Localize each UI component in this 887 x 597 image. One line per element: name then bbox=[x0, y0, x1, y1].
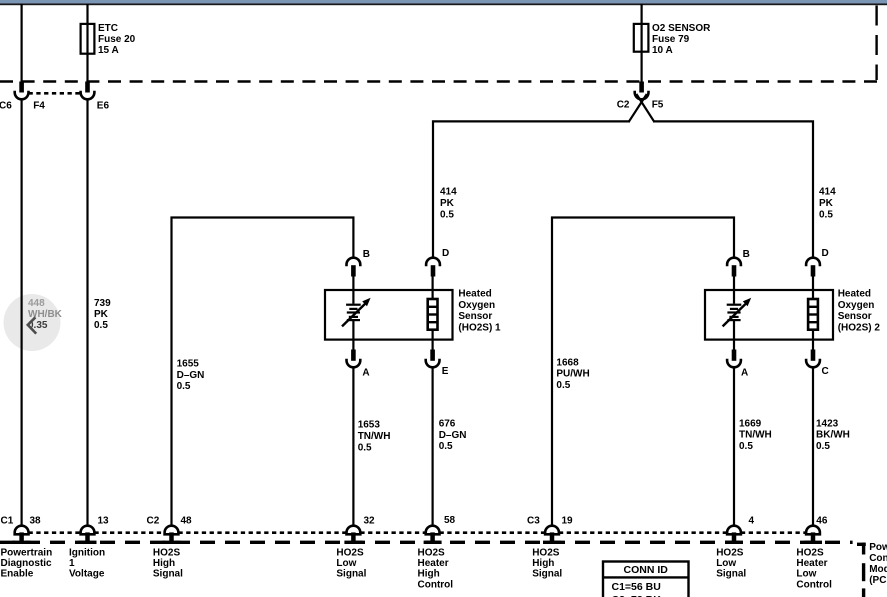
value label 739 PK 0.5 bbox=[94, 298, 111, 331]
svg-text:PK: PK bbox=[94, 309, 109, 320]
connector HO2S1 pin A bbox=[347, 350, 361, 368]
svg-text:TN/WH: TN/WH bbox=[358, 431, 391, 442]
label: HO2S High Signal bbox=[153, 548, 183, 580]
svg-text:E6: E6 bbox=[97, 100, 110, 111]
svg-text:C6: C6 bbox=[0, 100, 12, 111]
svg-text:Control: Control bbox=[418, 579, 454, 590]
label Heated Oxygen Sensor (HO2S) 1 bbox=[458, 289, 501, 334]
connector HO2S1 pin D bbox=[426, 258, 440, 277]
wire: 414 PK right branch to HO2S 2 pin D bbox=[653, 121, 813, 258]
fuse block row dotted link line (C6/F4 to E6) bbox=[29, 92, 81, 95]
svg-text:414: 414 bbox=[819, 187, 836, 198]
svg-text:Sensor: Sensor bbox=[838, 311, 872, 322]
cursor mark bbox=[28, 317, 36, 333]
svg-text:Oxygen: Oxygen bbox=[838, 300, 875, 311]
svg-text:0.5: 0.5 bbox=[819, 209, 833, 220]
svg-text:HO2S: HO2S bbox=[336, 548, 364, 559]
svg-text:0.5: 0.5 bbox=[358, 442, 372, 453]
svg-text:(HO2S) 2: (HO2S) 2 bbox=[838, 322, 881, 333]
svg-text:F5: F5 bbox=[652, 100, 664, 111]
svg-text:739: 739 bbox=[94, 298, 111, 309]
connector PCM pin 46 bbox=[804, 526, 822, 544]
splice crossover to two branches bbox=[629, 94, 655, 122]
svg-text:PK: PK bbox=[440, 198, 455, 209]
svg-text:HO2S: HO2S bbox=[796, 548, 824, 559]
value label 448 WH/BK 0.35 bbox=[28, 298, 63, 331]
sensor HO2S 2 internals: zirconia element bbox=[723, 277, 752, 351]
component box: Heated Oxygen Sensor (HO2S) 2 bbox=[705, 290, 833, 340]
boundary: Powertrain Control Module dashed border (bottom) bbox=[0, 542, 866, 597]
label: HO2S High Signal bbox=[532, 548, 562, 580]
label: HO2S Heater Low Control bbox=[796, 548, 832, 591]
svg-text:Signal: Signal bbox=[336, 569, 366, 580]
svg-text:B: B bbox=[363, 249, 370, 260]
wire: 676 D-GN heater high control to PCM pin 58 bbox=[432, 367, 434, 526]
connector PCM C2 pin 48 bbox=[163, 526, 181, 544]
connector HO2S2 pin D bbox=[806, 258, 820, 277]
svg-text:(HO2S) 1: (HO2S) 1 bbox=[458, 322, 501, 333]
svg-text:A: A bbox=[741, 368, 748, 379]
svg-text:Powertrain: Powertrain bbox=[869, 542, 887, 553]
svg-text:CONN ID: CONN ID bbox=[624, 564, 669, 576]
svg-text:676: 676 bbox=[439, 419, 456, 430]
svg-text:0.5: 0.5 bbox=[739, 441, 753, 452]
svg-text:BK/WH: BK/WH bbox=[816, 430, 850, 441]
svg-text:38: 38 bbox=[30, 516, 42, 527]
svg-text:1: 1 bbox=[69, 558, 75, 569]
svg-text:414: 414 bbox=[440, 187, 457, 198]
svg-text:1653: 1653 bbox=[358, 420, 381, 431]
fuse label ETC Fuse 20 15 A bbox=[98, 23, 136, 56]
svg-text:Low: Low bbox=[336, 558, 356, 569]
svg-text:32: 32 bbox=[364, 516, 376, 527]
svg-text:O2 SENSOR: O2 SENSOR bbox=[652, 23, 711, 34]
svg-text:10 A: 10 A bbox=[652, 45, 673, 56]
fuse O2 SENSOR Fuse 79 10A bbox=[634, 24, 649, 52]
sensor HO2S 2 internals: heater element bbox=[808, 277, 818, 351]
wire: 1668 PU/WH HO2S high signal to HO2S 2 pin B bbox=[552, 218, 734, 527]
wire: O2 sensor fuse feed from top bbox=[640, 4, 642, 82]
wire: 1655 D-GN HO2S high signal to HO2S 1 pin B bbox=[172, 218, 354, 527]
svg-text:A: A bbox=[362, 368, 369, 379]
label: HO2S Low Signal bbox=[336, 548, 366, 580]
value label 1653 TN/WH 0.5 bbox=[358, 420, 391, 454]
highlight circle watermark bbox=[4, 294, 61, 351]
value label 1668 PU/WH 0.5 bbox=[556, 357, 589, 391]
label: Ignition 1 Voltage bbox=[69, 548, 105, 580]
connector HO2S2 pin C bbox=[806, 350, 820, 368]
sensor HO2S 1 internals: heater element bbox=[428, 277, 438, 351]
svg-text:0.5: 0.5 bbox=[816, 441, 830, 452]
svg-text:1668: 1668 bbox=[556, 357, 579, 368]
svg-text:ETC: ETC bbox=[98, 23, 118, 34]
svg-text:Control: Control bbox=[796, 579, 832, 590]
value label 414 PK 0.5 (left) bbox=[440, 187, 457, 221]
svg-text:C2: C2 bbox=[147, 516, 160, 527]
connector HO2S1 pin B bbox=[347, 258, 361, 277]
connector HO2S2 pin B bbox=[727, 258, 741, 277]
svg-text:Ignition: Ignition bbox=[69, 548, 105, 559]
svg-text:HO2S: HO2S bbox=[418, 548, 446, 559]
value label 1669 TN/WH 0.5 bbox=[739, 418, 772, 452]
component box: Heated Oxygen Sensor (HO2S) 1 bbox=[325, 290, 453, 340]
svg-text:13: 13 bbox=[98, 516, 110, 527]
svg-text:4: 4 bbox=[749, 516, 755, 527]
label: HO2S Heater High Control bbox=[418, 548, 454, 591]
wire: 1653 TN/WH HO2S low signal to PCM pin 32 bbox=[352, 367, 354, 526]
svg-text:0.5: 0.5 bbox=[94, 320, 108, 331]
svg-text:Heater: Heater bbox=[796, 558, 827, 569]
svg-text:(PCM): (PCM) bbox=[869, 575, 887, 586]
svg-text:Control: Control bbox=[869, 553, 887, 564]
svg-text:58: 58 bbox=[444, 515, 456, 526]
svg-text:HO2S: HO2S bbox=[532, 548, 560, 559]
wire: 739 PK to PCM pin 13 bbox=[86, 100, 88, 526]
connector PCM C1 pin 38 bbox=[13, 526, 31, 544]
wire: 448 WH/BK feed from top bbox=[21, 4, 23, 82]
svg-text:High: High bbox=[532, 558, 554, 569]
connector PCM pin 58 bbox=[424, 526, 442, 544]
svg-text:D: D bbox=[442, 248, 449, 259]
connector HO2S2 pin A bbox=[727, 350, 741, 368]
svg-text:Heated: Heated bbox=[458, 289, 491, 300]
connector PCM pin 32 bbox=[344, 526, 362, 544]
boundary: fuse block dashed border (top) bbox=[0, 6, 878, 82]
svg-text:B: B bbox=[743, 249, 750, 260]
svg-text:Low: Low bbox=[796, 569, 816, 580]
svg-text:Oxygen: Oxygen bbox=[458, 300, 495, 311]
label Heated Oxygen Sensor (HO2S) 2 bbox=[838, 289, 881, 334]
svg-text:PU/WH: PU/WH bbox=[556, 369, 589, 380]
svg-text:TN/WH: TN/WH bbox=[739, 430, 772, 441]
svg-text:F4: F4 bbox=[33, 100, 45, 111]
svg-text:HO2S: HO2S bbox=[716, 548, 744, 559]
svg-text:Voltage: Voltage bbox=[69, 569, 105, 580]
svg-text:C3: C3 bbox=[527, 516, 540, 527]
svg-text:0.5: 0.5 bbox=[440, 209, 454, 220]
svg-text:Sensor: Sensor bbox=[458, 311, 492, 322]
value label 414 PK 0.5 (right) bbox=[819, 187, 836, 221]
svg-text:48: 48 bbox=[181, 516, 193, 527]
svg-text:0.5: 0.5 bbox=[177, 381, 191, 392]
svg-text:15 A: 15 A bbox=[98, 45, 119, 56]
svg-text:19: 19 bbox=[562, 516, 574, 527]
svg-text:448: 448 bbox=[28, 298, 45, 309]
svg-text:D: D bbox=[822, 248, 829, 259]
svg-text:Low: Low bbox=[716, 558, 736, 569]
connector PCM pin 4 bbox=[725, 526, 743, 544]
fuse label O2 SENSOR Fuse 79 10 A bbox=[652, 23, 711, 56]
svg-text:C: C bbox=[822, 366, 829, 377]
svg-text:Powertrain: Powertrain bbox=[1, 548, 53, 559]
svg-text:Signal: Signal bbox=[153, 569, 183, 580]
wire: 1423 BK/WH heater low control to PCM pin 46 bbox=[812, 367, 814, 526]
connector C6/F4 (fuse block) bbox=[15, 82, 29, 100]
svg-text:Signal: Signal bbox=[532, 569, 562, 580]
svg-text:D–GN: D–GN bbox=[439, 430, 467, 441]
svg-text:HO2S: HO2S bbox=[153, 548, 181, 559]
connector HO2S1 pin E bbox=[426, 350, 440, 368]
wire: 414 PK left branch to HO2S 1 pin D bbox=[433, 121, 630, 258]
sensor HO2S 1 internals: zirconia element bbox=[342, 277, 371, 351]
value label 676 D-GN 0.5 bbox=[439, 419, 467, 453]
svg-text:Heater: Heater bbox=[418, 558, 449, 569]
connector PCM C3 pin 19 bbox=[543, 526, 561, 544]
svg-text:0.5: 0.5 bbox=[439, 441, 453, 452]
svg-text:High: High bbox=[153, 558, 175, 569]
label: Powertrain Diagnostic Enable bbox=[1, 548, 53, 580]
svg-text:E: E bbox=[442, 366, 449, 377]
svg-text:Module: Module bbox=[869, 564, 887, 575]
svg-text:High: High bbox=[418, 569, 440, 580]
svg-text:PK: PK bbox=[819, 198, 834, 209]
connector PCM pin 13 bbox=[79, 526, 97, 544]
value label 1423 BK/WH 0.5 bbox=[816, 418, 850, 452]
svg-text:C1: C1 bbox=[1, 516, 14, 527]
svg-text:Fuse 79: Fuse 79 bbox=[652, 34, 690, 45]
wire: 739 PK feed from top through ETC fuse bbox=[86, 4, 88, 82]
svg-text:1669: 1669 bbox=[739, 418, 762, 429]
svg-text:1655: 1655 bbox=[177, 359, 200, 370]
svg-text:1423: 1423 bbox=[816, 418, 839, 429]
value label 1655 D-GN 0.5 bbox=[177, 359, 205, 393]
table: CONN ID (C1=56 BU ...) bbox=[603, 562, 689, 597]
wire: 1669 TN/WH HO2S low signal to PCM pin 4 bbox=[733, 367, 735, 526]
svg-text:Diagnostic: Diagnostic bbox=[1, 558, 53, 569]
svg-text:Heated: Heated bbox=[838, 289, 871, 300]
fuse ETC Fuse 20 15A bbox=[81, 24, 95, 54]
connector row dotted link line (PCM C1/C2/C3) bbox=[29, 531, 807, 534]
connector C2/F5 (fuse block) bbox=[635, 82, 649, 100]
svg-text:C1=56 BU: C1=56 BU bbox=[612, 581, 661, 593]
svg-text:Fuse 20: Fuse 20 bbox=[98, 34, 136, 45]
connector E6 (fuse block) bbox=[81, 82, 95, 100]
label: Powertrain Control Module (PCM), clipped at right edge bbox=[869, 542, 887, 586]
svg-text:0.5: 0.5 bbox=[556, 380, 570, 391]
svg-text:Signal: Signal bbox=[716, 569, 746, 580]
svg-text:C2: C2 bbox=[617, 100, 630, 111]
svg-text:46: 46 bbox=[816, 516, 828, 527]
wire: 448 WH/BK to PCM pin 38 bbox=[21, 100, 23, 526]
svg-text:D–GN: D–GN bbox=[177, 370, 205, 381]
svg-text:Enable: Enable bbox=[1, 569, 34, 580]
label: HO2S Low Signal bbox=[716, 548, 746, 580]
